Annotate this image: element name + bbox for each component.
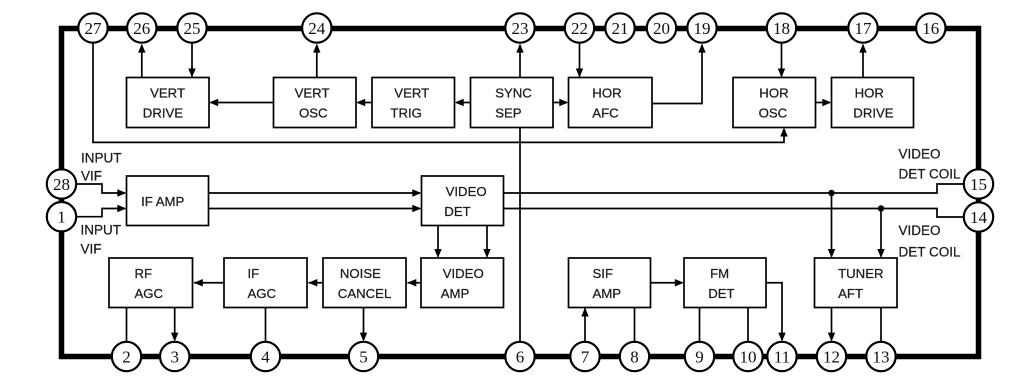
- svg-text:3: 3: [170, 347, 179, 366]
- svg-text:1: 1: [57, 208, 66, 227]
- svg-text:8: 8: [630, 347, 639, 366]
- svg-text:FM: FM: [710, 266, 729, 281]
- svg-text:24: 24: [308, 19, 326, 38]
- svg-text:INPUT: INPUT: [81, 151, 122, 166]
- svg-text:16: 16: [922, 19, 939, 38]
- svg-text:VERT: VERT: [295, 86, 330, 101]
- svg-text:VERT: VERT: [150, 86, 185, 101]
- svg-text:VIF: VIF: [81, 169, 102, 184]
- svg-text:DRIVE: DRIVE: [853, 106, 894, 121]
- svg-text:VIDEO: VIDEO: [899, 223, 941, 238]
- svg-text:7: 7: [581, 347, 590, 366]
- svg-text:AMP: AMP: [441, 286, 470, 301]
- svg-text:10: 10: [740, 347, 757, 366]
- svg-text:HOR: HOR: [855, 86, 884, 101]
- svg-text:26: 26: [133, 19, 150, 38]
- svg-text:SYNC: SYNC: [495, 86, 532, 101]
- svg-text:6: 6: [516, 347, 525, 366]
- svg-text:NOISE: NOISE: [340, 266, 381, 281]
- svg-text:15: 15: [970, 175, 987, 194]
- svg-text:5: 5: [359, 347, 368, 366]
- svg-text:AGC: AGC: [248, 286, 277, 301]
- svg-text:14: 14: [970, 208, 988, 227]
- svg-text:23: 23: [512, 19, 529, 38]
- svg-text:DRIVE: DRIVE: [143, 106, 184, 121]
- svg-text:AFC: AFC: [592, 106, 619, 121]
- svg-text:DET COIL: DET COIL: [899, 166, 962, 181]
- svg-text:VIF: VIF: [81, 242, 102, 257]
- svg-text:VIDEO: VIDEO: [443, 266, 484, 281]
- svg-text:TRIG: TRIG: [390, 106, 422, 121]
- svg-text:INPUT: INPUT: [81, 223, 122, 238]
- svg-text:11: 11: [774, 347, 790, 366]
- svg-text:AMP: AMP: [593, 286, 622, 301]
- svg-text:VERT: VERT: [394, 86, 429, 101]
- svg-text:21: 21: [612, 19, 629, 38]
- svg-text:HOR: HOR: [592, 86, 621, 101]
- svg-text:DET: DET: [444, 204, 470, 219]
- svg-text:AFT: AFT: [838, 286, 863, 301]
- svg-text:DET: DET: [708, 286, 734, 301]
- svg-text:17: 17: [855, 19, 873, 38]
- svg-text:HOR: HOR: [759, 86, 788, 101]
- svg-text:CANCEL: CANCEL: [338, 286, 392, 301]
- svg-text:9: 9: [695, 347, 704, 366]
- svg-text:VIDEO: VIDEO: [446, 184, 487, 199]
- svg-text:VIDEO: VIDEO: [899, 146, 941, 161]
- svg-text:DET COIL: DET COIL: [899, 245, 962, 260]
- svg-text:SIF: SIF: [593, 266, 614, 281]
- svg-text:22: 22: [571, 19, 588, 38]
- svg-text:OSC: OSC: [759, 106, 788, 121]
- svg-text:IF: IF: [248, 266, 260, 281]
- svg-text:SEP: SEP: [495, 106, 522, 121]
- svg-text:4: 4: [261, 347, 270, 366]
- svg-text:AGC: AGC: [135, 286, 164, 301]
- svg-text:20: 20: [653, 19, 670, 38]
- svg-text:TUNER: TUNER: [838, 266, 883, 281]
- svg-text:28: 28: [53, 175, 70, 194]
- svg-text:19: 19: [694, 19, 711, 38]
- svg-text:13: 13: [873, 347, 890, 366]
- svg-text:18: 18: [773, 19, 790, 38]
- svg-text:IF AMP: IF AMP: [141, 194, 184, 209]
- svg-text:25: 25: [184, 19, 201, 38]
- svg-text:27: 27: [85, 19, 103, 38]
- svg-text:OSC: OSC: [299, 106, 328, 121]
- svg-text:12: 12: [823, 347, 840, 366]
- svg-text:2: 2: [122, 347, 131, 366]
- svg-text:RF: RF: [135, 266, 153, 281]
